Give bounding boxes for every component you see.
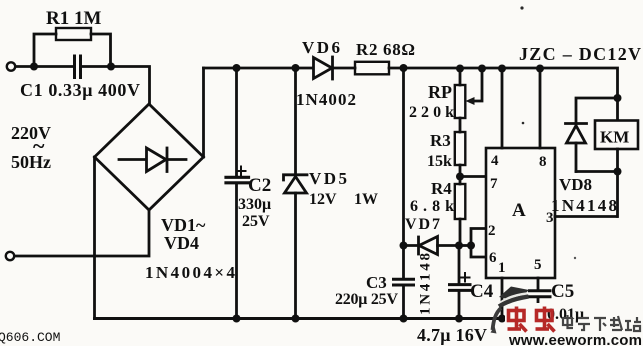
svg-text:1: 1 [498,260,506,276]
diode VD8 [566,122,587,125]
node C2 top [233,64,241,72]
wire bridge left vertex to ground rail [93,157,96,319]
wire bracket pins 2 and 6 [471,229,486,258]
watermark white halo [505,303,554,334]
svg-text:VD1~: VD1~ [161,215,206,235]
svg-text:KM: KM [600,128,629,147]
svg-text:R1 1M: R1 1M [46,8,101,29]
terminal top-left input [7,62,15,70]
capacitor C3 [394,279,414,285]
svg-text:15k: 15k [427,153,452,170]
resistor R4 [455,184,466,219]
svg-text:220k: 220k [409,104,454,121]
svg-text:7: 7 [490,176,498,192]
node pin 8 top [536,65,544,73]
RP wiper arrow [473,69,482,101]
C2 plus sign [237,167,246,176]
wire bottom input to bridge bottom [15,210,150,256]
svg-text:C5: C5 [551,281,574,302]
wire pin 3 [555,215,617,218]
svg-text:1N4002: 1N4002 [296,90,356,109]
node R1 right [107,63,115,71]
wire KM bottom to pin 3 [616,149,619,217]
scan speck [574,257,576,259]
zener diode VD5 [294,68,297,175]
wire R2 to relay branch corner [389,68,618,98]
svg-text:1N4004×4: 1N4004×4 [145,263,236,282]
svg-text:220μ 25V: 220μ 25V [335,291,398,308]
resistor R2 [355,62,389,75]
wire pin 5 to C5 [537,278,540,290]
wire VD8 top link [576,98,618,124]
wire R1 right leg [91,34,111,67]
svg-text:6: 6 [489,250,497,266]
node C4 bottom [455,315,463,323]
wire pin 4 [501,68,504,148]
svg-text:JZC – DC12V: JZC – DC12V [519,44,641,64]
svg-text:www.eeworm.com: www.eeworm.com [508,332,642,346]
svg-text:1N4148: 1N4148 [551,196,617,215]
capacitor C1 [75,56,81,78]
svg-text:R2 68Ω: R2 68Ω [356,40,415,59]
scan speck [520,6,523,9]
svg-text:4.7μ 16V: 4.7μ 16V [417,325,487,345]
wire top rail bridge to VD6 [204,67,314,70]
wire pin 8 [539,68,542,148]
watermark hat swoosh [491,287,530,334]
resistor R1 [56,28,91,40]
wire top input to C1 [16,65,74,68]
capacitor C2 [235,68,238,176]
svg-text:VD5: VD5 [309,169,347,188]
svg-text:C3: C3 [366,273,387,292]
svg-text:C2: C2 [248,175,271,196]
svg-text:VD7: VD7 [405,216,440,233]
wire R1 left leg [34,34,56,67]
svg-text:4: 4 [491,153,499,169]
wire VD6 to R2 [333,67,356,70]
bridge inner diode symbol [119,158,186,161]
svg-text:220V: 220V [11,123,51,143]
svg-text:8: 8 [539,154,547,170]
resistor R3 [455,132,466,165]
wire C1 to bridge top [82,67,150,105]
wire R4 to VD7 node [459,219,462,246]
svg-text:12V: 12V [309,191,337,208]
wire bridge right vertex to top rail [202,68,205,157]
svg-text:R3: R3 [430,131,451,150]
node RP top [456,65,464,73]
node relay top [614,94,622,102]
wire relay branch down [616,98,619,121]
svg-text:3: 3 [546,210,554,226]
svg-text:5: 5 [534,257,542,273]
svg-text:1W: 1W [354,191,378,208]
node VD5 bottom [292,315,300,323]
watermark red chong char 1 [508,307,527,332]
wire pin 7 [460,175,486,178]
diode VD7 [404,244,419,247]
svg-text:VD4: VD4 [164,233,199,253]
watermark chinese site name [563,315,641,331]
relay coil KM box [595,121,638,150]
svg-text:A: A [512,200,526,221]
diode VD6 [314,58,333,79]
watermark red chong char 2 [536,307,555,332]
node RP wiper top [478,65,486,73]
node pin 4 top [498,65,506,73]
svg-text:R4: R4 [431,179,452,198]
node pin 1 bottom [498,315,506,323]
node bracket [467,242,475,250]
svg-text:50Hz: 50Hz [11,152,51,172]
bridge rectifier VD1-VD4 diamond [95,104,204,210]
op-amp U1 IC A box [486,148,555,278]
svg-text:Q606.COM: Q606.COM [0,330,60,345]
C4 plus sign [461,273,470,282]
svg-text:RP: RP [428,82,452,102]
node C3 top rail [400,64,408,72]
node VD5 top [292,64,300,72]
wire VD8 bottom link [576,170,618,173]
node C2 bottom [233,315,241,323]
svg-text:6.8k: 6.8k [410,198,454,215]
svg-text:VD8: VD8 [559,175,592,194]
wire pin 1 [501,278,504,319]
capacitor C4 [458,246,461,285]
node C3 bottom [400,315,408,323]
node R1 left [30,63,38,71]
wire node to pins 2/6 bracket [459,244,471,247]
scan speck [522,122,525,125]
potentiometer RP [459,68,462,85]
svg-text:330μ: 330μ [238,196,271,213]
wire R3 to R4 [459,165,462,184]
svg-text:C1 0.33μ 400V: C1 0.33μ 400V [20,80,140,100]
wire C3 branch upper [402,68,405,278]
terminal bottom-left input [6,252,14,260]
svg-text:25V: 25V [242,213,270,230]
node VD7 left [400,242,408,250]
node R3/R4 pin7 [456,173,464,181]
wire RP to R3 [459,118,462,132]
node VD7 right [455,242,463,250]
svg-text:C4: C4 [470,281,494,302]
capacitor C5 [530,291,551,297]
svg-text:VD6: VD6 [302,38,340,57]
node relay bottom [614,168,622,176]
svg-text:2: 2 [488,223,496,239]
ground rail wire [95,317,546,320]
svg-text:1N4148: 1N4148 [418,253,434,315]
